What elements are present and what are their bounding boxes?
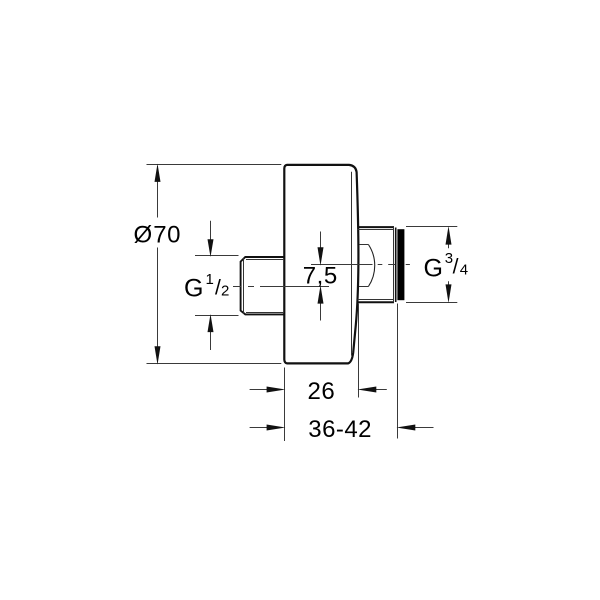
- dim diameter70 vertical line upper: [157, 166, 159, 218]
- svg-text:7,5: 7,5: [303, 263, 338, 290]
- dim diameter70 arrow up: [155, 164, 161, 182]
- outlet G3/4 bottom root thin: [358, 299, 394, 301]
- stub G1/2 top root thin: [246, 259, 284, 261]
- dim G3/4 upper arrow: [448, 244, 450, 248]
- dim G1/2 top extension line: [195, 255, 239, 257]
- dim 7.5 upper arrow: [320, 232, 322, 250]
- svg-text:2: 2: [221, 283, 229, 300]
- svg-text:70: 70: [153, 222, 181, 249]
- dim 7.5 lower arrow: [320, 303, 322, 321]
- stub thread end vertical: [243, 258, 245, 314]
- dim diameter70 bottom extension line: [147, 363, 282, 365]
- dim diameter70 vertical line lower: [157, 248, 159, 363]
- svg-text:/: /: [453, 256, 459, 279]
- dim G3/4 bottom extension line: [406, 302, 457, 304]
- svg-text:4: 4: [460, 262, 468, 279]
- outlet inner dome arc: [368, 245, 374, 287]
- dim 26 left extension line: [284, 368, 286, 442]
- dim diameter70 arrow down: [155, 346, 161, 364]
- outlet inner bore bottom line: [359, 286, 368, 288]
- dim G1/2 lower arrow: [210, 330, 212, 350]
- dim G1/2 bottom extension line: [195, 315, 239, 317]
- dim 36-42 right extension line: [397, 304, 399, 439]
- dim G3/4 top extension line: [406, 226, 457, 228]
- svg-text:1: 1: [206, 271, 214, 288]
- outlet end face vertical: [395, 228, 397, 303]
- svg-text:Ø: Ø: [134, 222, 153, 249]
- dim 36-42 right arrow: [415, 427, 434, 429]
- outlet thread end vertical thin: [393, 227, 395, 302]
- body face inner contour: [351, 172, 353, 356]
- stub centerline: [233, 286, 329, 288]
- dim 36-42 left arrow: [250, 427, 268, 429]
- outlet G3/4 top root thin: [358, 229, 394, 231]
- outlet centerline: [311, 264, 410, 266]
- svg-text:26: 26: [308, 378, 336, 405]
- dim G3/4 lower arrow: [448, 281, 450, 285]
- outlet seal black band: [397, 229, 404, 300]
- stub G1/2 outline crest: [241, 257, 284, 314]
- outlet inner bore top line: [359, 244, 368, 246]
- stub G1/2 bottom root thin: [246, 312, 284, 314]
- dim 26 right extension line: [358, 304, 360, 398]
- dim 7.5 lower reference line: [280, 286, 329, 288]
- svg-text:G: G: [424, 254, 443, 282]
- dim diameter70 top extension line: [147, 164, 282, 166]
- outlet G3/4 top crest thick: [358, 226, 395, 228]
- svg-text:36-42: 36-42: [308, 416, 372, 443]
- dim G1/2 upper arrow: [210, 221, 212, 241]
- dim 7.5 upper reference line: [311, 264, 357, 266]
- body flange outline: [284, 165, 358, 364]
- dim 26 left arrow: [250, 389, 268, 391]
- outlet G3/4 bottom crest thick: [358, 301, 395, 303]
- dim 26 right arrow: [376, 389, 387, 391]
- svg-text:G: G: [184, 275, 203, 303]
